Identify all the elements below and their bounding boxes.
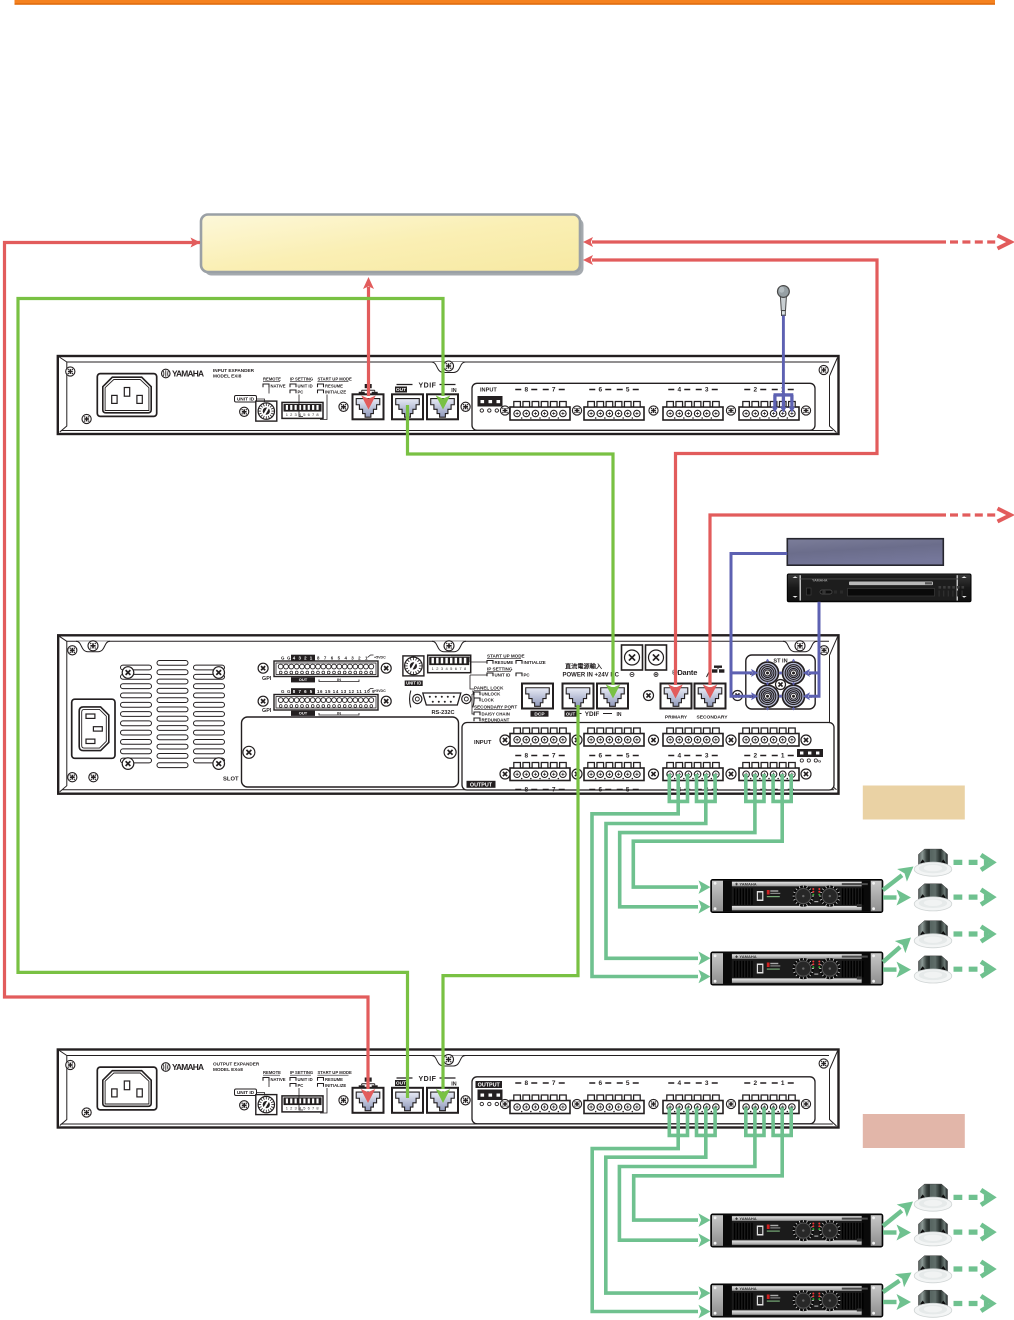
svg-text:YAMAHA: YAMAHA: [812, 579, 828, 583]
svg-text:NATIVE: NATIVE: [271, 383, 286, 388]
svg-text:OUTPUT EXPANDER: OUTPUT EXPANDER: [213, 1062, 260, 1067]
svg-text:2: 2: [753, 387, 757, 394]
svg-text:REMOTE: REMOTE: [263, 1070, 281, 1075]
svg-text:IN: IN: [451, 388, 456, 394]
ceiling speaker SP8: [914, 1290, 952, 1317]
svg-text:ST IN: ST IN: [773, 659, 787, 665]
svg-text:REDUNDANT: REDUNDANT: [482, 717, 510, 722]
svg-text:SECONDARY PORT: SECONDARY PORT: [474, 705, 517, 710]
svg-text:4: 4: [677, 1080, 681, 1087]
svg-text:INITIALIZE: INITIALIZE: [325, 1083, 346, 1088]
header orange bar: [15, 0, 996, 5]
svg-text:PRIMARY: PRIMARY: [665, 715, 688, 721]
svg-text:START UP MODE: START UP MODE: [318, 1070, 352, 1075]
svg-text:6: 6: [598, 753, 602, 760]
svg-text:PC: PC: [298, 1083, 304, 1088]
svg-text:POWER IN +24V DC: POWER IN +24V DC: [563, 673, 620, 679]
svg-text:OUT: OUT: [566, 711, 576, 716]
arrow mint dashed: speaker SP1 continuation: [954, 855, 993, 870]
background music source navy box: [787, 539, 943, 566]
input expander EXi8 rear panel: [58, 356, 839, 434]
svg-text:5: 5: [626, 753, 630, 760]
svg-text:16 15 14 13 12 11 10 9: 16 15 14 13 12 11 10 9: [317, 689, 375, 694]
svg-text:UNIT ID: UNIT ID: [298, 383, 313, 388]
svg-text:⚜ YAMAHA: ⚜ YAMAHA: [735, 1216, 757, 1221]
svg-text:6: 6: [598, 1080, 602, 1087]
svg-text:⚜ YAMAHA: ⚜ YAMAHA: [735, 954, 757, 959]
svg-text:GPI: GPI: [262, 676, 272, 682]
wire red: router to EXo8 Dante port (left loop): [5, 238, 376, 1104]
svg-text:6: 6: [598, 387, 602, 394]
svg-text:UNIT ID: UNIT ID: [237, 1090, 255, 1096]
wire mint: MTX output ch1 to amp PA1 input A: [633, 774, 793, 894]
arrow mint: amp PA4 to speaker (horizontal): [883, 1294, 911, 1310]
svg-text:⚜ YAMAHA: ⚜ YAMAHA: [735, 1286, 757, 1291]
wire green YDIF: EXi8 OUT to MTX IN: [408, 405, 621, 699]
svg-text:DCP: DCP: [534, 711, 545, 717]
wire green YDIF: EXo8 OUT up left side to EXi8 IN: [18, 299, 450, 1099]
svg-text:IN: IN: [337, 711, 341, 716]
arrow mint dashed: speaker SP5 continuation: [954, 1190, 993, 1205]
svg-text:IN: IN: [337, 677, 341, 682]
svg-text:5: 5: [626, 787, 630, 794]
tan highlight box: [863, 786, 965, 820]
arrow mint dashed: speaker SP7 continuation: [954, 1262, 993, 1277]
svg-text:OUT: OUT: [396, 1081, 406, 1087]
salmon highlight box: [863, 1114, 965, 1148]
ceiling speaker SP2: [914, 884, 952, 911]
svg-text:3: 3: [705, 1080, 709, 1087]
svg-text:MODEL EXi8: MODEL EXi8: [213, 374, 242, 379]
svg-text:G: G: [281, 656, 285, 661]
svg-text:2: 2: [753, 753, 757, 760]
svg-text:PC: PC: [298, 389, 304, 394]
svg-text:DAISY CHAIN: DAISY CHAIN: [482, 711, 510, 716]
svg-text:YAMAHA: YAMAHA: [172, 1062, 204, 1072]
svg-text:8: 8: [524, 753, 528, 760]
svg-text:PC: PC: [524, 672, 531, 677]
svg-text:G: G: [287, 689, 291, 694]
svg-text:⚜ YAMAHA: ⚜ YAMAHA: [735, 882, 757, 887]
svg-text:OUT: OUT: [396, 387, 406, 393]
wire blue: microphone cable to EXi8 input 1: [772, 316, 796, 413]
svg-text:+5VDC: +5VDC: [374, 689, 386, 693]
svg-text:5: 5: [626, 387, 630, 394]
svg-text:IP SETTING: IP SETTING: [290, 1070, 313, 1075]
power amplifier PA2: [711, 952, 883, 985]
microphone MIC1: [778, 286, 790, 316]
svg-text:7: 7: [552, 787, 556, 794]
svg-text:UNIT ID: UNIT ID: [406, 681, 421, 686]
arrow mint dashed: speaker SP6 continuation: [954, 1225, 993, 1240]
svg-text:G: G: [818, 759, 821, 764]
svg-text:G: G: [287, 656, 291, 661]
arrow mint dashed: speaker SP3 continuation: [954, 927, 993, 942]
svg-text:7: 7: [552, 753, 556, 760]
svg-text:OUTPUT: OUTPUT: [478, 1083, 501, 1089]
svg-text:NATIVE: NATIVE: [271, 1077, 286, 1082]
svg-text:7: 7: [552, 1080, 556, 1087]
svg-text:PANEL LOCK: PANEL LOCK: [474, 686, 504, 691]
wire blue: navy source box to MTX ST IN 2L/2R: [731, 554, 787, 701]
wire mint: MTX output ch2 to amp PA1 input B: [620, 774, 766, 914]
svg-text:INPUT EXPANDER: INPUT EXPANDER: [213, 368, 255, 373]
ceiling speaker SP3: [914, 921, 952, 948]
svg-text:+5VDC: +5VDC: [374, 656, 386, 660]
svg-text:直流電源輸入: 直流電源輸入: [565, 663, 603, 671]
svg-text:RESUME: RESUME: [325, 383, 343, 388]
svg-text:8 7 6 5: 8 7 6 5: [293, 689, 313, 694]
wire red: MTX Dante SECONDARY dashed continuation: [703, 509, 1011, 699]
wire mint: EXo8 output ch4 to amp PA4 input B: [592, 1108, 710, 1319]
power amplifier PA1: [711, 880, 883, 913]
svg-text:IN: IN: [451, 1081, 456, 1087]
power amplifier PA4: [711, 1284, 883, 1317]
ceiling speaker SP1: [914, 849, 952, 876]
MTX5-D matrix processor rear panel: [58, 635, 838, 793]
arrow mint: amp PA2 to speaker (horizontal): [883, 962, 911, 978]
svg-text:INPUT: INPUT: [480, 388, 497, 394]
svg-text:IN: IN: [617, 712, 622, 718]
arrow mint: amp PA4 to speaker (diagonal): [883, 1266, 916, 1292]
svg-text:UNLOCK: UNLOCK: [482, 691, 502, 696]
wire mint: EXo8 output ch1 to amp PA3 input A: [634, 1108, 793, 1227]
svg-text:6: 6: [598, 787, 602, 794]
ceiling speaker SP7: [914, 1256, 952, 1283]
power amplifier PA3: [711, 1214, 883, 1247]
svg-text:UNIT ID: UNIT ID: [237, 397, 255, 403]
svg-text:1: 1: [781, 753, 785, 760]
output expander EXo8 rear panel: [58, 1050, 839, 1128]
svg-text:8: 8: [524, 787, 528, 794]
svg-text:UNIT ID: UNIT ID: [298, 1077, 313, 1082]
wire mint: MTX output ch3 to amp PA2 input A: [606, 774, 717, 965]
svg-text:MODEL EXo8: MODEL EXo8: [213, 1067, 243, 1072]
arrow mint dashed: speaker SP8 continuation: [954, 1296, 993, 1311]
wire mint: EXo8 output ch3 to amp PA4 input A: [606, 1108, 717, 1300]
svg-text:YAMAHA: YAMAHA: [172, 368, 204, 378]
svg-text:OUT: OUT: [299, 711, 308, 716]
router yellow box: [201, 215, 584, 276]
svg-text:RESUME: RESUME: [495, 660, 514, 665]
svg-text:8: 8: [524, 387, 528, 394]
svg-text:7: 7: [552, 387, 556, 394]
svg-text:YDIF: YDIF: [585, 711, 600, 718]
arrow mint dashed: speaker SP2 continuation: [954, 890, 993, 905]
svg-text:IP SETTING: IP SETTING: [487, 667, 513, 672]
svg-text:REMOTE: REMOTE: [263, 377, 281, 382]
svg-text:YDIF: YDIF: [419, 383, 437, 390]
svg-text:INITIALIZE: INITIALIZE: [524, 660, 546, 665]
arrow mint: amp PA1 to speaker (horizontal): [883, 890, 911, 906]
wire blue: CD player to MTX ST IN 1L/1R: [803, 602, 819, 700]
svg-text:INITIALIZE: INITIALIZE: [325, 389, 346, 394]
svg-text:SLOT: SLOT: [223, 777, 239, 783]
wire red: router to MTX Dante PRIMARY: [583, 255, 877, 699]
arrow mint: amp PA1 to speaker (diagonal): [883, 860, 918, 890]
svg-text:4: 4: [677, 753, 681, 760]
svg-text:YDIF: YDIF: [419, 1076, 437, 1083]
svg-text:3: 3: [705, 387, 709, 394]
ceiling speaker SP6: [914, 1219, 952, 1246]
svg-text:START UP MODE: START UP MODE: [318, 377, 352, 382]
svg-text:8: 8: [524, 1080, 528, 1087]
ceiling speaker SP5: [914, 1184, 952, 1211]
wire red: router dashed continuation to other devices (top): [583, 236, 1011, 249]
svg-text:4: 4: [677, 387, 681, 394]
svg-text:IP SETTING: IP SETTING: [290, 377, 313, 382]
svg-text:GPI: GPI: [262, 708, 272, 714]
svg-text:SECONDARY: SECONDARY: [696, 715, 728, 721]
svg-text:START UP MODE: START UP MODE: [487, 654, 525, 659]
svg-text:8 7 6 5 4 3 2 1: 8 7 6 5 4 3 2 1: [317, 656, 369, 661]
svg-text:1: 1: [781, 1080, 785, 1087]
svg-text:LOCK: LOCK: [482, 697, 495, 702]
arrow mint: amp PA2 to speaker (diagonal): [883, 931, 916, 962]
arrow mint dashed: speaker SP4 continuation: [954, 962, 993, 977]
wire green YDIF: MTX OUT to EXo8 IN: [436, 705, 578, 1103]
svg-text:INPUT: INPUT: [474, 740, 492, 746]
wire red: router to EXi8 Dante port (vertical): [361, 277, 376, 410]
ceiling speaker SP4: [914, 956, 952, 983]
svg-text:UNIT ID: UNIT ID: [495, 672, 511, 677]
svg-text:2: 2: [753, 1080, 757, 1087]
svg-text:G: G: [281, 689, 285, 694]
svg-text:RESUME: RESUME: [325, 1077, 343, 1082]
svg-text:4 3 2 1: 4 3 2 1: [293, 655, 313, 660]
wire mint: MTX output ch4 to amp PA2 input B: [592, 774, 711, 983]
svg-text:OUTPUT: OUTPUT: [470, 782, 493, 788]
arrow mint: amp PA3 to speaker (horizontal): [883, 1225, 911, 1241]
arrow mint: amp PA3 to speaker (diagonal): [883, 1195, 918, 1226]
svg-text:RS-232C: RS-232C: [431, 710, 454, 716]
svg-text:5: 5: [626, 1080, 630, 1087]
svg-text:3: 3: [705, 753, 709, 760]
svg-text:OUT: OUT: [299, 677, 308, 682]
CD player rack unit: [787, 574, 971, 602]
wire mint: EXo8 output ch2 to amp PA3 input B: [619, 1108, 765, 1247]
